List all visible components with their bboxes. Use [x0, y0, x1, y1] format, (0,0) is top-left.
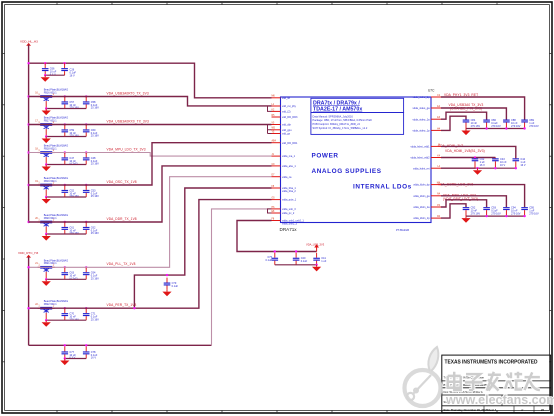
capacitor C93 [483, 207, 490, 216]
wire rail3 to pin [29, 153, 272, 157]
power flag VDD_HL_H3 [20, 39, 38, 45]
capacitor C66 [42, 63, 49, 75]
svg-text:vdda_bba_2: vdda_bba_2 [282, 190, 296, 193]
svg-text:vdd_csi_phy: vdd_csi_phy [282, 105, 297, 108]
wire rail7 gnd bus [46, 319, 86, 321]
junction groupC C95 gnd tap [523, 215, 525, 217]
svg-text:PTJ5A2GB: PTJ5A2GB [396, 228, 409, 232]
svg-text:vdda_pcie_1: vdda_pcie_1 [282, 199, 297, 202]
junction rail5 bus tap [27, 221, 29, 223]
junction trio cap2 tap [295, 250, 297, 252]
svg-text:vdda_hdmi_ret: vdda_hdmi_ret [413, 167, 430, 170]
junction rail7 cap2 tap [85, 307, 87, 309]
junction groupC C94 gnd tap [505, 215, 507, 217]
capacitor C79 [164, 278, 171, 290]
wire groupB pin3 feed [441, 167, 475, 169]
junction rail1 cap2 tap [85, 95, 87, 97]
svg-text:vdda_pc_2: vdda_pc_2 [282, 212, 295, 215]
svg-text:vdda_video_1p: vdda_video_1p [413, 130, 431, 133]
capacitor C62 [83, 222, 90, 234]
svg-text:FB21 600,1: FB21 600,1 [44, 262, 58, 265]
pin G3 vdda_video_1a [413, 117, 441, 121]
junction topcap gnd tap [44, 74, 46, 76]
op-amp U7C DRA7xx IC body [281, 97, 432, 223]
wire rail7 to pin [29, 200, 272, 309]
wire bottom rail [29, 344, 212, 346]
capacitor C52 [62, 185, 69, 197]
ground groupA ground [461, 129, 470, 136]
junction rail6 gnd tap [45, 278, 47, 280]
capacitor C44 [513, 158, 520, 169]
wire bracket pins vdd_csi [268, 106, 272, 111]
capacitor C64 [83, 267, 90, 279]
ground groupB ground [473, 168, 482, 175]
svg-text:vdda_usb_3: vdda_usb_3 [282, 208, 296, 211]
capacitor C71 [83, 308, 90, 320]
ground lone cap ground [162, 290, 171, 297]
svg-text:Date: Thursday, November 30,: Date: Thursday, November 30, 2017 [444, 408, 488, 412]
junction groupA C89 gnd tap [523, 127, 525, 129]
junction bottom cap1 tap [64, 344, 66, 346]
capacitor C42 [472, 158, 479, 169]
svg-text:vdda_ldoln_1a: vdda_ldoln_1a [413, 206, 430, 209]
pin M6 vdd_sb [272, 96, 291, 100]
svg-text:vdda_video_1a: vdda_video_1a [413, 118, 431, 121]
pin H6 vdda_usb_3 [272, 207, 297, 211]
wire rail5 to pin [29, 166, 272, 222]
power flag VDA_USB_3V3 [306, 242, 325, 251]
junction rail3 cap1 tap [64, 151, 66, 153]
pin L1 vdd_csi_phy [272, 104, 297, 108]
pin V5 vdd_ddr [272, 122, 292, 126]
junction groupB gnd tap2 [515, 167, 517, 169]
ground topcap ground [41, 75, 50, 82]
ferrite bead FB21 [35, 259, 68, 279]
junction rail1 cap1 tap [64, 95, 66, 97]
svg-text:vdda_ca: vdda_ca [282, 176, 292, 179]
capacitor C47 [62, 153, 69, 165]
junction rail4 bus tap [27, 184, 29, 186]
svg-text:Package: CBD, 17x17mm, 538 FBG: Package: CBD, 17x17mm, 538 FBGA, 0.65mm … [313, 118, 373, 122]
wire net VDA_PER pin branch [134, 188, 271, 308]
ground rail3 ground [42, 165, 51, 172]
ground trio ground [312, 265, 321, 272]
capacitor C26 [61, 63, 68, 75]
svg-text:FB19 600,1: FB19 600,1 [44, 180, 58, 183]
wire rail3 gnd bus [46, 164, 86, 166]
pin J4 vdda_hdmi_vdd1 [410, 144, 441, 148]
svg-text:vdd_sb: vdd_sb [282, 97, 291, 100]
node IC title box [311, 98, 404, 134]
junction rail2 cap1 tap [64, 123, 66, 125]
ferrite bead FB22 [35, 300, 68, 320]
pin K2 vdd_(2) [272, 109, 291, 113]
svg-text:vdda_ldoln_1p: vdda_ldoln_1p [413, 217, 430, 220]
wire bottom caps gnd link [65, 358, 86, 360]
capacitor C78 [83, 347, 90, 359]
wire topcap gnd link [45, 74, 64, 76]
wire groupC pin1 feed [441, 185, 525, 208]
junction groupA C86 gnd tap [485, 127, 487, 129]
svg-text:VDA_HDMI_1V8(B1_3V3): VDA_HDMI_1V8(B1_3V3) [445, 149, 485, 153]
junction topcap1 tap [44, 62, 46, 64]
junction groupB gnd tap0 [476, 167, 478, 169]
svg-text:FB18 600,1: FB18 600,1 [44, 147, 58, 150]
wire rail1 gnd bus [46, 108, 86, 110]
junction bus top line tap [27, 62, 29, 64]
ground groupC ground [461, 216, 470, 223]
capacitor C95 [521, 207, 528, 216]
svg-text:FB16 600,1: FB16 600,1 [44, 91, 58, 94]
junction trio gnd tap [315, 264, 317, 266]
svg-text:vdda_ldoln_ga: vdda_ldoln_ga [413, 195, 430, 198]
svg-text:INTERNAL LDOs: INTERNAL LDOs [353, 184, 412, 191]
svg-text:FB17 600,1: FB17 600,1 [44, 119, 58, 122]
junction bottom cap2 tap [85, 344, 87, 346]
pin G4 vdda_video_ga [413, 106, 441, 110]
title block [442, 355, 551, 413]
ground bottom ground [60, 359, 69, 366]
wire rail6 to pin [29, 177, 272, 268]
svg-text:VDA_DDR_TX_1V8: VDA_DDR_TX_1V8 [107, 217, 137, 221]
wire groupA gnd bus [466, 128, 525, 130]
wire net VDA_USB trio [237, 221, 317, 252]
junction rail4 cap2 tap [85, 184, 87, 186]
svg-text:vdd_DD_DD1: vdd_DD_DD1 [282, 142, 298, 145]
pin H4 vdda_video_1p [413, 128, 441, 132]
junction bus2 rail6 tap [27, 266, 29, 268]
ferrite bead FB16 [35, 89, 68, 109]
capacitor C70 [62, 308, 69, 320]
svg-text:U7C: U7C [428, 89, 435, 93]
capacitor C61 [62, 222, 69, 234]
junction rail5 cap1 tap [64, 221, 66, 223]
svg-text:vdda_video_ga: vdda_video_ga [413, 107, 431, 110]
svg-text:VDA_USB3A0RT0_TX_3V3: VDA_USB3A0RT0_TX_3V3 [107, 91, 149, 95]
wire net VDD_HL to pin vdd_sb [29, 63, 272, 98]
junction rail5 gnd tap [45, 233, 47, 235]
wire groupB pin2 feed [441, 157, 495, 159]
ground rail2 ground [42, 137, 51, 144]
wire rail4 to pin [29, 143, 272, 185]
power flag VDD_RTC_H3 [18, 251, 39, 257]
wire rail6 gnd bus [46, 278, 86, 280]
svg-text:VDD_HL_H3: VDD_HL_H3 [20, 39, 38, 43]
svg-text:TDA2E-17 / AM570x: TDA2E-17 / AM570x [313, 107, 362, 113]
svg-text:vdda_hdmi_vdd1: vdda_hdmi_vdd1 [410, 146, 430, 149]
ground rail4 ground [42, 197, 51, 204]
junction rail3 cap2 tap [85, 151, 87, 153]
pin K4 vdda_hdmi_vdd2 [410, 155, 441, 159]
ferrite bead FB19 [35, 177, 68, 197]
svg-text:vdd_gs: vdd_gs [282, 133, 291, 136]
capacitor C88 [503, 120, 510, 129]
svg-text:AB4: AB4 [272, 140, 277, 143]
svg-text:VDA_USB3A0RX0_TX_3V3: VDA_USB3A0RX0_TX_3V3 [107, 119, 150, 123]
pin F2 vdda_video_dp [413, 95, 441, 99]
ferrite bead FB17 [35, 117, 68, 137]
wire groupC gnd bus [466, 215, 525, 217]
svg-text:VDA_PLL_TX_1V8: VDA_PLL_TX_1V8 [107, 262, 136, 266]
junction rail2 bus tap [27, 123, 29, 125]
pin J1 vdda_ma_1 [272, 154, 296, 158]
junction rail7 bus tap [27, 307, 29, 309]
capacitor C94 [503, 207, 510, 216]
wire bus VDD_RTC vertical [28, 257, 30, 346]
ferrite bead FB18 [35, 145, 68, 165]
wire groupC pin3 feed [441, 200, 487, 207]
wire rail1 to pin [29, 97, 272, 106]
pin L4 vdda_hdmi_ret [413, 166, 441, 170]
wire bracket pins vdda_usb [268, 209, 272, 213]
capacitor C63 [62, 267, 69, 279]
svg-text:vdda_video_dp: vdda_video_dp [413, 96, 431, 99]
junction rail1 bus tap [27, 95, 29, 97]
capacitor C60 [83, 125, 90, 137]
capacitor C75 [272, 253, 279, 265]
svg-text:VDA_OSC_TX_1V8: VDA_OSC_TX_1V8 [107, 180, 137, 184]
junction rail7 cap1 tap [64, 307, 66, 309]
capacitor C53 [83, 185, 90, 197]
capacitor C43 [492, 158, 499, 169]
svg-text:vdda_hdmi_vdd2: vdda_hdmi_vdd2 [410, 157, 430, 160]
wire groupA pin1 feed [441, 97, 525, 120]
svg-text:www.elecfans.com: www.elecfans.com [445, 393, 554, 407]
svg-text:FB20 600,1: FB20 600,1 [44, 217, 58, 220]
junction rail2 cap2 tap [85, 123, 87, 125]
junction topcap2 tap [63, 62, 65, 64]
wire trio gnd bus [275, 264, 317, 266]
junction groupB cap1 tap [474, 156, 476, 158]
node title block text [444, 360, 545, 413]
svg-text:DRA7tx / DRA79x /: DRA7tx / DRA79x / [313, 100, 360, 106]
pin N4 vdda_ldoln_ga [413, 194, 441, 198]
svg-text:SCH Symbol: IC_360sby_17mm_538: SCH Symbol: IC_360sby_17mm_538BALL_v1.2 [313, 126, 368, 130]
pin G5 vdda_pcie_1 [272, 198, 297, 202]
junction rail4 cap1 tap [64, 184, 66, 186]
svg-text:vdd_(2): vdd_(2) [282, 111, 291, 114]
wire groupA pin4 feed [441, 116, 466, 130]
pin C9 vdda_abe_1 [272, 164, 297, 168]
svg-text:POWER: POWER [312, 153, 339, 160]
wire groupC pin4 feed [441, 204, 466, 218]
watermark chinese characters [448, 372, 540, 391]
svg-text:VDA_MPU_LDO_TX_3V3: VDA_MPU_LDO_TX_3V3 [107, 147, 146, 151]
wire bracket pins vdd_ddr [268, 125, 272, 134]
pin W5 vdd_gpu [272, 128, 293, 132]
svg-text:vdda_usb2_3: vdda_usb2_3 [282, 222, 298, 225]
junction groupC C93 gnd tap [485, 215, 487, 217]
wire rail4 gnd bus [46, 196, 86, 198]
wire rail2 gnd bus [46, 136, 86, 138]
pin E8 vdda_pc_2 [272, 211, 295, 215]
ground rail5 ground [42, 234, 51, 241]
svg-text:vdd_gpu: vdd_gpu [282, 129, 292, 132]
capacitor C57 [62, 97, 69, 109]
junction bottom gnd tap [64, 357, 66, 359]
ground rail7 ground [42, 320, 51, 327]
svg-text:C750.1uF: C750.1uF [265, 255, 272, 262]
wire groupA pin3 feed [441, 112, 487, 119]
ferrite bead FB20 [35, 214, 68, 234]
junction S4 rail7 join [133, 307, 135, 309]
capacitor C40 [293, 253, 300, 265]
svg-text:vdd_DD_DD3: vdd_DD_DD3 [282, 116, 298, 119]
svg-text:ANALOG SUPPLIES: ANALOG SUPPLIES [312, 168, 382, 175]
wire groupA pin2 feed [441, 108, 506, 120]
capacitor C89 [521, 120, 528, 129]
svg-text:of: of [521, 408, 523, 412]
wire bottom rail riser to pin [212, 209, 272, 345]
pin R5 vdd_DD_DD3 [272, 115, 299, 119]
wire groupC pin2 feed [441, 196, 506, 207]
wire rail5 gnd bus [46, 233, 86, 235]
junction rail5 cap2 tap [85, 221, 87, 223]
svg-text:vdd_ddr: vdd_ddr [282, 124, 291, 127]
pin Y5 vdd_gs [272, 131, 291, 135]
junction rail1 gnd tap [45, 107, 47, 109]
svg-text:VDD_RTC_H3: VDD_RTC_H3 [18, 251, 39, 255]
pin AB4 vdd_DD_DD1 [272, 140, 299, 145]
capacitor C58 [83, 97, 90, 109]
junction groupA C88 gnd tap [505, 127, 507, 129]
svg-text:VDA_PER_TX_1V8: VDA_PER_TX_1V8 [107, 303, 137, 307]
ground rail6 ground [42, 279, 51, 286]
junction rail6 cap2 tap [85, 266, 87, 268]
pin M4 vdda_ldoln_dp [413, 183, 441, 187]
pin F5 vdda_bba_1 [272, 186, 297, 193]
watermark logo circle [405, 347, 441, 406]
junction rail6 cap1 tap [64, 266, 66, 268]
wire rail2 to pin [29, 124, 272, 126]
junction rail7 gnd tap [45, 319, 47, 321]
pin F8 vdda_usb1_usb2_1 [272, 218, 305, 225]
wire groupB gnd bus [475, 167, 516, 169]
capacitor C86 [483, 120, 490, 129]
svg-text:Sheet 4: Sheet 4 [487, 408, 497, 412]
svg-text:FB22 600,1: FB22 600,1 [44, 303, 58, 306]
svg-text:vdda_ldoln_dp: vdda_ldoln_dp [413, 184, 430, 187]
svg-text:PCB Footprint: 360sby_DRA71x_Z: PCB Footprint: 360sby_DRA71x_ZDR_v4 [313, 122, 361, 126]
capacitor C92 [463, 207, 470, 216]
ground rail1 ground [42, 109, 51, 116]
svg-text:TEXAS INSTRUMENTS INCORPORATED: TEXAS INSTRUMENTS INCORPORATED [445, 360, 538, 366]
capacitor C59 [62, 125, 69, 137]
junction rail2 gnd tap [45, 135, 47, 137]
junction rail6 bus tap [27, 266, 29, 268]
capacitor C77 [62, 347, 69, 359]
junction rail3 bus tap [27, 151, 29, 153]
pin P4 vdda_ldoln_1a [413, 205, 441, 209]
watermark url text [445, 393, 554, 407]
junction rail4 gnd tap [45, 196, 47, 198]
junction groupB gnd tap1 [494, 167, 496, 169]
svg-text:DRA71x: DRA71x [280, 227, 298, 232]
junction trio cap1 tap [274, 250, 276, 252]
svg-text:vdda_ma_1: vdda_ma_1 [282, 155, 296, 158]
capacitor C48 [83, 153, 90, 165]
junction lone cap tap [166, 274, 168, 276]
svg-text:VDA_USB_3V3: VDA_USB_3V3 [306, 242, 325, 246]
wire groupB pin1 feed [441, 146, 516, 158]
svg-text:Data Manual: SPRS966A_July2016: Data Manual: SPRS966A_July2016 [313, 114, 354, 118]
junction bus2 rail7 tap [27, 307, 29, 309]
capacitor C84 [463, 120, 470, 129]
pin R4 vdda_ldoln_1p [413, 216, 441, 220]
capacitor C41 [313, 253, 320, 265]
wire bus VDD_HL vertical [28, 45, 30, 222]
junction rail3 gnd tap [45, 163, 47, 165]
svg-text:vdda_abe_1: vdda_abe_1 [282, 165, 296, 168]
pin D7 vdda_ca [272, 175, 293, 179]
